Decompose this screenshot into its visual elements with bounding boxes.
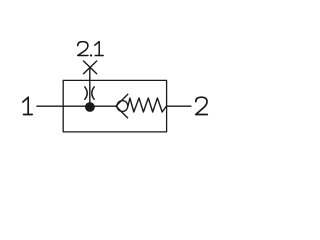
check valve V1 ball: [117, 101, 128, 112]
port label 2: [196, 97, 208, 114]
check valve V1 spring: [128, 98, 167, 112]
value label 2.1 digit 2: [78, 42, 88, 56]
valve body envelope: [63, 80, 166, 131]
value label 2.1 digit 1: [95, 42, 103, 56]
junction node dot: [85, 102, 95, 112]
wire port 1 line: [37, 105, 63, 107]
port label 1: [23, 97, 32, 114]
value label 2.1 period: [90, 54, 92, 56]
plugged port X symbol 2.1: [84, 61, 97, 74]
orifice restrictor arcs: [85, 87, 94, 99]
wire pilot line from plug to junction: [89, 67, 91, 106]
check valve V1 seat: [116, 94, 128, 118]
wire internal line 1 to check valve: [63, 105, 116, 107]
wire port 2 line: [167, 105, 191, 107]
